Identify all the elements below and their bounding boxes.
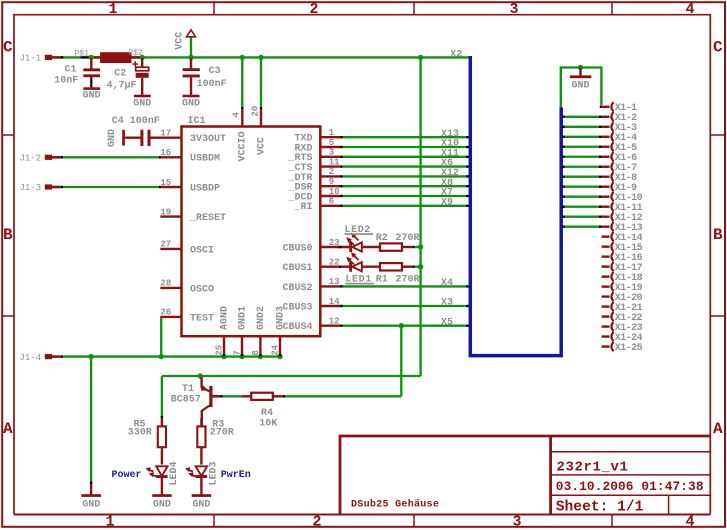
svg-text:Power: Power xyxy=(112,470,142,481)
frame tick left C|B xyxy=(2,134,14,136)
op-amp IC1 box FT232R xyxy=(182,127,321,337)
wire black pin-end R5 top xyxy=(161,416,163,418)
svg-text:B: B xyxy=(713,226,723,244)
connector pin X1-1 xyxy=(600,106,602,108)
svg-text:J1-3: J1-3 xyxy=(20,183,42,193)
frame tick bottom 2|3 xyxy=(413,515,415,527)
resistor R2 270R xyxy=(362,246,380,248)
svg-text:CBUS1: CBUS1 xyxy=(282,263,312,274)
svg-text:10nF: 10nF xyxy=(54,75,78,86)
svg-text:3V3OUT: 3V3OUT xyxy=(190,134,226,145)
svg-text:13: 13 xyxy=(329,277,340,287)
connector pin X1-5 xyxy=(562,146,599,148)
svg-text:19: 19 xyxy=(160,207,171,217)
wire net X7 to bus X2 xyxy=(343,195,469,197)
svg-text:C: C xyxy=(3,39,13,57)
connector pin J1-2 xyxy=(45,155,52,160)
resistor R5 330R xyxy=(161,418,163,426)
svg-text:CBUS0: CBUS0 xyxy=(282,243,312,254)
svg-text:27: 27 xyxy=(160,240,171,250)
pin 14 CBUS3 IC1 right xyxy=(320,305,340,307)
svg-text:OSCO: OSCO xyxy=(190,284,214,295)
svg-text:X9: X9 xyxy=(441,197,453,208)
ground GND symbol C3 xyxy=(183,95,200,98)
wire VCC top horizontal J1-1 to bus X2 xyxy=(61,56,469,58)
svg-text:X5: X5 xyxy=(441,317,453,328)
svg-text:CBUS2: CBUS2 xyxy=(282,283,312,294)
svg-text:GND: GND xyxy=(82,499,100,510)
wire T1 base to R4 xyxy=(223,395,242,397)
frame tick right B|A xyxy=(710,315,725,317)
pin 16 USBDM IC1 left xyxy=(161,156,181,158)
transistor T1 BC857 PNP xyxy=(200,377,202,388)
frame tick bottom 3|4 xyxy=(611,515,613,527)
svg-text:X4: X4 xyxy=(441,278,453,289)
pin 22 CBUS1 IC1 right xyxy=(320,266,349,268)
connector pin J1-1 xyxy=(45,55,52,60)
svg-text:GND: GND xyxy=(107,129,118,147)
svg-text:330R: 330R xyxy=(128,428,152,439)
svg-text:3: 3 xyxy=(509,1,518,18)
wire black pin-end pin 20 xyxy=(260,107,262,109)
pin 17 3V3OUT IC1 left xyxy=(160,136,181,138)
node junction TEST drop xyxy=(159,354,164,359)
svg-text:GND: GND xyxy=(133,98,151,109)
svg-text:12: 12 xyxy=(329,317,340,327)
wire supply horizontal y=376 to R5 xyxy=(162,375,421,377)
svg-text:VCC: VCC xyxy=(175,32,186,50)
node junction X5 to R4 branch xyxy=(399,323,404,328)
ground GND symbol LED4 xyxy=(152,494,172,497)
svg-text:_RI: _RI xyxy=(293,202,312,213)
connector pin X1-8 xyxy=(562,176,599,178)
svg-text:GND2: GND2 xyxy=(256,306,267,330)
svg-text:DSub25 Gehäuse: DSub25 Gehäuse xyxy=(351,498,439,510)
pin 19 _RESET IC1 left xyxy=(160,215,181,217)
connector pin X1-15 xyxy=(602,245,610,247)
svg-text:2: 2 xyxy=(312,513,321,530)
wire GND vertical drop x=91.1 xyxy=(90,357,92,484)
svg-text:B: B xyxy=(3,226,13,244)
connector pin X1-23 xyxy=(602,325,610,327)
frame tick top 2|3 xyxy=(413,2,415,15)
connector pin X1-12 xyxy=(562,216,599,218)
capacitor C3 xyxy=(190,58,192,68)
wire net X3 CBUS3 to bus xyxy=(343,305,469,307)
svg-text:VCCIO: VCCIO xyxy=(238,131,249,161)
pin 25 AGND IC1 bottom xyxy=(223,336,225,354)
connector pin X1-19 xyxy=(602,285,610,287)
node junction VCC symbol / C3 xyxy=(188,55,193,60)
svg-text:100nF: 100nF xyxy=(197,79,227,90)
capacitor C2 polarized xyxy=(134,61,136,67)
svg-text:IC1: IC1 xyxy=(188,116,206,127)
wire net X6 to bus X2 xyxy=(343,165,469,167)
node junction GND drop xyxy=(88,354,93,359)
node junction GND2 pin 8 xyxy=(258,354,263,359)
frame tick left B|A xyxy=(2,315,14,317)
svg-text:2: 2 xyxy=(309,1,318,18)
wire TEST pin 26 vertical xyxy=(160,318,162,357)
connector pin X1-18 xyxy=(602,275,610,277)
svg-text:5: 5 xyxy=(329,138,334,148)
svg-text:1: 1 xyxy=(329,128,335,138)
frame tick top 1|2 xyxy=(213,2,215,15)
wire net X5 CBUS4 to bus xyxy=(343,325,469,327)
svg-text:20: 20 xyxy=(250,106,260,117)
svg-text:PwrEn: PwrEn xyxy=(221,470,251,481)
svg-text:T1: T1 xyxy=(182,384,194,395)
pin 7 GND1 IC1 bottom xyxy=(241,336,243,354)
svg-text:7: 7 xyxy=(232,350,242,355)
LED LED3 PwrEn xyxy=(196,466,207,476)
LED LED4 Power xyxy=(156,466,167,476)
svg-text:C3: C3 xyxy=(209,66,221,77)
pin 20 VCC IC1 top xyxy=(260,109,262,127)
connector pin X1-24 xyxy=(602,335,610,337)
svg-text:2: 2 xyxy=(329,167,334,177)
pin 8 GND2 IC1 bottom xyxy=(259,336,261,354)
svg-text:J1-1: J1-1 xyxy=(20,53,42,63)
svg-text:P$2: P$2 xyxy=(128,49,143,58)
svg-text:GND: GND xyxy=(82,90,100,101)
svg-text:AGND: AGND xyxy=(220,306,231,330)
pin 12 CBUS4 IC1 right xyxy=(320,325,340,327)
supply VCC symbol xyxy=(190,37,192,57)
svg-text:C: C xyxy=(713,39,723,57)
svg-text:VCC: VCC xyxy=(256,137,267,155)
svg-text:14: 14 xyxy=(329,297,340,307)
svg-text:6: 6 xyxy=(329,197,334,207)
wire GND net horizontal J1-4 xyxy=(63,355,280,357)
svg-text:1: 1 xyxy=(105,513,114,530)
connector pin X1-13 xyxy=(562,226,599,228)
svg-text:232r1_v1: 232r1_v1 xyxy=(557,459,629,475)
connector pin X1-16 xyxy=(602,255,610,257)
connector pin X1-22 xyxy=(602,315,610,317)
capacitor C1 xyxy=(90,58,92,69)
wire black end GND drop xyxy=(90,482,92,485)
wire R5 top vertical xyxy=(161,376,163,417)
svg-text:A: A xyxy=(3,420,13,438)
node junction R2 to supply xyxy=(418,244,423,249)
bus X2 U-shape xyxy=(470,56,561,356)
pin 9 _DSR IC1 right xyxy=(320,185,340,187)
svg-text:R2: R2 xyxy=(376,233,388,244)
pin 15 USBDP IC1 left xyxy=(161,186,181,188)
svg-text:4: 4 xyxy=(232,112,242,118)
svg-text:USBDP: USBDP xyxy=(190,183,220,194)
wire LED supply vertical x=420.6 xyxy=(419,57,421,376)
wire net X4 CBUS2 to bus xyxy=(343,285,469,287)
svg-text:GND1: GND1 xyxy=(238,306,249,330)
node junction P$2 / C2 xyxy=(140,55,145,60)
svg-text:LED3: LED3 xyxy=(208,461,219,485)
svg-text:R4: R4 xyxy=(261,408,273,419)
pin 13 CBUS2 IC1 right xyxy=(320,285,340,287)
svg-text:26: 26 xyxy=(160,308,171,318)
svg-text:X1-25: X1-25 xyxy=(615,343,643,354)
svg-text:270R: 270R xyxy=(396,233,420,244)
svg-text:03.10.2006 01:47:38: 03.10.2006 01:47:38 xyxy=(556,479,704,494)
svg-text:24: 24 xyxy=(270,344,280,355)
svg-text:270R: 270R xyxy=(396,275,420,286)
wire J1-2 to USBDM pin 16 xyxy=(63,156,159,158)
svg-text:10: 10 xyxy=(329,187,340,197)
connector pin X1-10 xyxy=(562,196,599,198)
wire black pin-end pin 4 xyxy=(241,107,243,109)
svg-text:J1-4: J1-4 xyxy=(20,353,42,363)
node junction LED supply drop xyxy=(418,55,423,60)
svg-text:1: 1 xyxy=(108,1,117,18)
connector pin X1-9 xyxy=(562,186,599,188)
wire VCC vertical drop to pin 20 xyxy=(260,57,262,107)
svg-text:C4 100nF: C4 100nF xyxy=(112,116,160,127)
pin 4 VCCIO IC1 top xyxy=(241,109,243,127)
svg-text:GND: GND xyxy=(153,499,171,510)
title block outline xyxy=(339,436,711,515)
svg-text:10K: 10K xyxy=(259,419,277,430)
wire GND net top right xyxy=(561,68,602,108)
frame tick top 3|4 xyxy=(611,2,613,15)
svg-text:J1-2: J1-2 xyxy=(20,153,42,163)
wire black pin-end pin 15 xyxy=(159,186,162,188)
pin 5 RXD IC1 right xyxy=(320,146,340,148)
connector pin J1-4 xyxy=(45,354,52,359)
ground GND symbol LED3 xyxy=(192,494,212,497)
svg-text:4: 4 xyxy=(685,1,694,18)
node junction T1 emitter xyxy=(198,373,203,378)
node junction VCC pin drop xyxy=(258,55,263,60)
ferrite bead P$1 xyxy=(94,56,100,59)
connector pin J1-3 xyxy=(45,184,52,189)
svg-text:_RESET: _RESET xyxy=(189,213,226,224)
wire net X11 to bus X2 xyxy=(343,156,469,158)
ground GND symbol below J1-4 net xyxy=(90,484,92,495)
pin 23 CBUS0 IC1 right xyxy=(320,246,349,248)
pin 11 _CTS IC1 right xyxy=(320,165,340,167)
wire black segment at P$1 pin end xyxy=(81,56,90,58)
connector pin X1-20 xyxy=(602,295,610,297)
node junction P$1 / C1 xyxy=(89,55,94,60)
pin 27 OSCI IC1 left xyxy=(160,248,181,250)
connector pin X1-6 xyxy=(562,156,599,158)
svg-text:15: 15 xyxy=(160,178,171,188)
ground GND symbol C2 xyxy=(134,95,151,98)
svg-text:22: 22 xyxy=(329,258,340,268)
svg-text:TEST: TEST xyxy=(190,313,214,324)
svg-text:USBDM: USBDM xyxy=(190,154,220,165)
pin 28 OSCO IC1 left xyxy=(160,287,181,289)
wire net X13 to bus X2 xyxy=(343,136,469,138)
svg-text:3: 3 xyxy=(512,513,521,530)
svg-text:CBUS3: CBUS3 xyxy=(282,302,312,313)
connector pin X1-7 xyxy=(562,166,599,168)
ground GND symbol C1 xyxy=(83,87,100,90)
svg-text:A: A xyxy=(713,420,723,438)
svg-text:LED4: LED4 xyxy=(169,461,180,485)
pin 3 _RTS IC1 right xyxy=(320,156,340,158)
wire VCCIO vertical drop to pin 4 xyxy=(241,57,243,107)
node junction AGND pin 25 xyxy=(221,354,226,359)
node junction R1 to supply xyxy=(418,264,423,269)
node junction GND1 pin 7 xyxy=(239,354,244,359)
wire net X10 to bus X2 xyxy=(343,146,469,148)
svg-text:270R: 270R xyxy=(210,428,234,439)
svg-text:BC857: BC857 xyxy=(171,395,201,406)
pin 1 TXD IC1 right xyxy=(320,136,340,138)
wire net X12 to bus X2 xyxy=(343,175,469,177)
svg-text:25: 25 xyxy=(214,345,224,356)
svg-text:C2: C2 xyxy=(114,69,126,80)
svg-text:Sheet: 1/1: Sheet: 1/1 xyxy=(556,499,644,515)
wire black pin-end pin 16 xyxy=(159,156,162,158)
wire R4 to X5 net xyxy=(285,395,401,397)
node junction GND symbol xyxy=(578,65,583,70)
connector pin X1-21 xyxy=(602,305,610,307)
LED LED1 on CBUS1 xyxy=(349,262,352,272)
svg-text:GND: GND xyxy=(192,499,210,510)
wire net X8 to bus X2 xyxy=(343,185,469,187)
svg-text:X3: X3 xyxy=(441,298,453,309)
svg-text:GND: GND xyxy=(182,98,200,109)
pin 10 _DCD IC1 right xyxy=(320,195,340,197)
svg-text:CBUS4: CBUS4 xyxy=(282,322,312,333)
svg-text:4: 4 xyxy=(685,513,694,530)
svg-text:17: 17 xyxy=(160,129,171,139)
pin 26 TEST IC1 left xyxy=(160,316,181,318)
connector pin X1-3 xyxy=(562,126,599,128)
svg-text:28: 28 xyxy=(160,279,171,289)
connector pin X1-25 xyxy=(602,345,610,347)
resistor R3 270R xyxy=(200,418,202,426)
svg-text:23: 23 xyxy=(329,238,340,248)
svg-text:3: 3 xyxy=(329,148,334,158)
svg-text:4,7µF: 4,7µF xyxy=(107,80,137,91)
connector pin X1-11 xyxy=(562,206,599,208)
node junction GND3 pin 24 xyxy=(277,354,282,359)
pin 6 _RI IC1 right xyxy=(320,205,340,207)
connector pin X1-4 xyxy=(562,136,599,138)
wire J1-3 to USBDP pin 15 xyxy=(63,186,159,188)
frame tick right C|B xyxy=(710,134,725,136)
svg-text:C1: C1 xyxy=(65,65,77,76)
svg-text:8: 8 xyxy=(251,350,261,355)
svg-text:9: 9 xyxy=(329,177,334,187)
connector pin X1-2 xyxy=(562,116,599,118)
pin 2 _DTR IC1 right xyxy=(320,175,340,177)
node junction VCCIO drop xyxy=(240,55,245,60)
svg-text:GND: GND xyxy=(571,80,589,91)
svg-text:P$1: P$1 xyxy=(75,49,90,58)
pin 24 GND3 IC1 bottom xyxy=(279,336,281,354)
frame tick bottom 1|2 xyxy=(213,515,215,527)
resistor R1 270R xyxy=(362,266,380,268)
resistor R4 10K xyxy=(241,395,251,397)
connector pin X1-14 xyxy=(602,235,610,237)
connector pin X1-17 xyxy=(602,265,610,267)
LED LED2 on CBUS0 xyxy=(349,242,352,252)
svg-text:16: 16 xyxy=(160,148,171,158)
ground GND symbol top right xyxy=(579,68,581,76)
svg-text:11: 11 xyxy=(329,157,340,167)
svg-text:OSCI: OSCI xyxy=(190,245,214,256)
svg-text:R1: R1 xyxy=(376,275,388,286)
svg-text:X2: X2 xyxy=(450,49,462,60)
wire net X9 to bus X2 xyxy=(343,205,469,207)
